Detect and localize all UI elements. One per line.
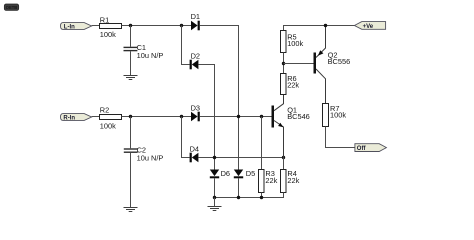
resistor R3 xyxy=(259,169,278,193)
capacitor C1 xyxy=(124,43,164,60)
diode D5 xyxy=(234,169,255,178)
wire R1 to D1 xyxy=(122,25,192,27)
node: R3 branch on base wire xyxy=(260,115,263,118)
wire node to D4 xyxy=(182,117,190,158)
wire C2 top stem xyxy=(130,117,132,149)
svg-text:100k: 100k xyxy=(100,30,116,39)
node: R2 / C2 junction xyxy=(129,115,132,118)
node: D1/D5 line on base wire xyxy=(237,115,240,118)
svg-text:D3: D3 xyxy=(191,104,200,113)
wire D2 anode to D6 top line xyxy=(198,65,214,170)
wire R3 top lead xyxy=(261,117,263,170)
svg-text:D2: D2 xyxy=(191,51,200,60)
svg-text:OETB: OETB xyxy=(6,5,18,10)
svg-text:D6: D6 xyxy=(221,169,230,178)
svg-text:BC556: BC556 xyxy=(328,57,351,66)
tag Off xyxy=(355,144,387,152)
svg-text:100k: 100k xyxy=(330,110,346,119)
svg-text:10u N/P: 10u N/P xyxy=(137,51,164,60)
node: Q1 emitter / R4 junction xyxy=(282,156,285,159)
wire D4 anode across to Q1 emitter line xyxy=(198,157,283,159)
tag R-In xyxy=(61,114,92,122)
svg-text:22k: 22k xyxy=(287,81,299,90)
wire C1 to ground xyxy=(130,51,132,75)
wire R3 bottom lead xyxy=(261,193,263,198)
svg-text:100k: 100k xyxy=(100,121,116,130)
wire R5 top lead / top rail corner xyxy=(284,26,355,31)
wire C2 to ground xyxy=(130,153,132,207)
tag L-In xyxy=(61,23,92,31)
svg-text:100k: 100k xyxy=(287,39,303,48)
wire D6 to bottom rail xyxy=(214,178,216,197)
capacitor C2 xyxy=(124,145,164,162)
node: D2 branch junction xyxy=(180,24,183,27)
node: D4 branch junction xyxy=(180,115,183,118)
tag +Ve xyxy=(354,22,385,30)
wire C1 top stem xyxy=(130,26,132,47)
node: D6 line on D4 wire xyxy=(213,156,216,159)
resistor R6 xyxy=(281,74,300,95)
diode D1 xyxy=(191,12,200,30)
wire R7 to Off tag xyxy=(326,127,355,148)
node: R3 bottom junction xyxy=(260,196,263,199)
svg-text:+Ve: +Ve xyxy=(363,24,374,30)
wire D3 cathode to Q1 base xyxy=(200,116,272,118)
resistor R7 xyxy=(323,104,347,127)
resistor R5 xyxy=(281,31,304,53)
node: Q2 emitter on top rail xyxy=(324,24,327,27)
wire R4 top lead xyxy=(283,158,285,170)
wire D5 to bottom rail xyxy=(238,178,240,197)
resistor R2 xyxy=(100,105,122,130)
resistor R1 xyxy=(100,15,122,39)
wire R5 to R6 xyxy=(283,53,285,74)
ground bottom center xyxy=(208,207,222,211)
wire node to D2 xyxy=(182,26,190,65)
diode D6 xyxy=(210,169,230,178)
svg-text:R1: R1 xyxy=(100,15,109,24)
node: R5/R6/Q2 base junction xyxy=(282,62,285,65)
svg-text:BC546: BC546 xyxy=(287,112,310,121)
ground under C1 xyxy=(124,76,138,80)
diode D3 xyxy=(191,104,200,122)
diode D4 xyxy=(190,145,199,163)
diode D2 xyxy=(190,51,200,69)
node: R1 / C1 junction xyxy=(129,24,132,27)
wire R-In to R2 xyxy=(92,116,100,118)
transistor Q1 BC546 xyxy=(272,95,310,158)
svg-text:D4: D4 xyxy=(190,145,199,154)
svg-text:L-In: L-In xyxy=(64,24,75,30)
wire D1 cathode to D5 top line xyxy=(200,26,239,170)
watermark badge xyxy=(4,4,18,10)
svg-text:D1: D1 xyxy=(191,12,200,21)
svg-text:R2: R2 xyxy=(100,105,109,114)
svg-text:Off: Off xyxy=(357,146,367,152)
transistor Q2 BC556 xyxy=(314,26,351,104)
svg-text:D5: D5 xyxy=(246,169,255,178)
node: D5 bottom junction xyxy=(237,196,240,199)
svg-text:22k: 22k xyxy=(287,176,299,185)
svg-text:R-In: R-In xyxy=(63,115,75,121)
wire Q2 base xyxy=(284,63,314,65)
svg-text:10u N/P: 10u N/P xyxy=(137,153,164,162)
wire L-In to R1 xyxy=(92,25,100,27)
svg-text:22k: 22k xyxy=(265,176,277,185)
bottom rail wire to R4 xyxy=(215,193,284,198)
resistor R4 xyxy=(281,169,300,193)
wire R2 to D3 xyxy=(122,116,192,118)
ground under C2 xyxy=(124,208,138,212)
node: ground junction xyxy=(213,196,216,199)
wire bottom rail to ground xyxy=(214,198,216,207)
